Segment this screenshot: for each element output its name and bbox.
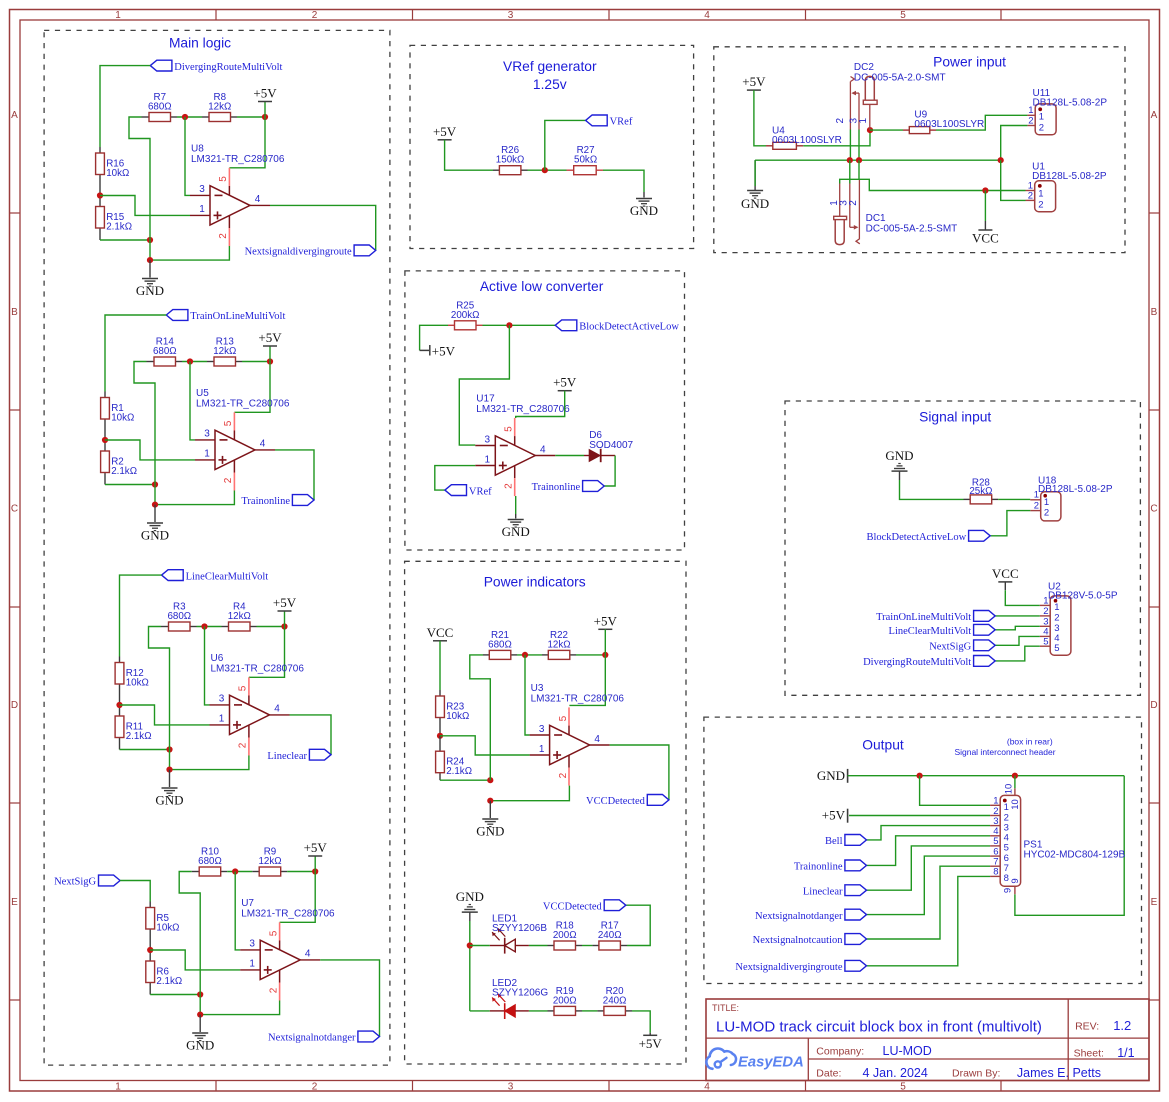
svg-text:1: 1: [485, 454, 491, 465]
wire pin 1 to VRef flag: [435, 466, 476, 491]
wire input flag to divider: [105, 315, 166, 392]
wire R_bot bottom to ground rail: [150, 994, 200, 996]
svg-text:240Ω: 240Ω: [598, 930, 622, 941]
wire node down to pin 3: [459, 325, 509, 445]
svg-text:GND: GND: [136, 283, 164, 298]
node R25 output: [506, 322, 512, 328]
U7 pin 2 (V-): [268, 970, 279, 1001]
U17 pin 2 (V-): [504, 466, 515, 497]
op-amp U17 LM321-TR_C280706: [476, 394, 570, 476]
svg-text:4: 4: [305, 949, 311, 960]
svg-text:GND: GND: [630, 203, 658, 218]
node ground rail left: [166, 746, 172, 752]
svg-text:James E. Petts: James E. Petts: [1017, 1066, 1101, 1080]
svg-text:Output: Output: [862, 738, 904, 753]
svg-text:Nextsignaldivergingroute: Nextsignaldivergingroute: [245, 247, 352, 258]
wire between feedback resistors: [197, 626, 222, 628]
U8 pin 3 (inverting): [190, 184, 210, 195]
svg-text:10kΩ: 10kΩ: [446, 711, 469, 722]
svg-text:0603L100SLYR: 0603L100SLYR: [772, 135, 842, 146]
resistor R9: [252, 847, 287, 877]
svg-text:12kΩ: 12kΩ: [258, 856, 281, 867]
LED LED2 SZYY1206G: [490, 978, 549, 1019]
svg-text:4: 4: [260, 439, 266, 450]
svg-text:LM321-TR_C280706: LM321-TR_C280706: [241, 909, 335, 920]
svg-text:680Ω: 680Ω: [148, 102, 172, 113]
node divider junction: [97, 192, 103, 198]
wire pin 5 to +5V node: [280, 872, 316, 923]
wire BlockDetectActiveLow to U18 pin2: [990, 511, 1030, 536]
resistor R4: [222, 602, 257, 632]
wire +5V to pin 5: [516, 391, 565, 418]
wire U9 to U11 pin1: [936, 115, 1027, 130]
wire feedback loop: [129, 117, 150, 260]
resistor R21: [483, 630, 517, 660]
svg-text:5: 5: [223, 420, 234, 426]
svg-text:A: A: [1151, 110, 1158, 121]
node gnd bus DC1 pin2: [856, 157, 862, 163]
svg-text:DB128V-5.0-5P: DB128V-5.0-5P: [1048, 590, 1118, 601]
U3 pin 4 (output): [590, 734, 610, 745]
U6 pin 3 (inverting): [210, 694, 230, 705]
svg-text:Sheet:: Sheet:: [1074, 1048, 1104, 1060]
svg-text:VCCDetected: VCCDetected: [586, 796, 646, 807]
net flag VRef (U17 input): [445, 485, 492, 498]
svg-text:DC1: DC1: [866, 213, 886, 224]
wire ground to LED rail: [469, 912, 471, 921]
svg-text:Date:: Date:: [816, 1068, 841, 1080]
op-amp U6 LM321-TR_C280706: [211, 653, 305, 735]
svg-text:10kΩ: 10kΩ: [126, 678, 149, 689]
node +5V rail: [281, 623, 287, 629]
resistor R7: [142, 92, 178, 122]
U17 pin 4 (output): [535, 444, 555, 455]
wire to LED2: [470, 1010, 490, 1012]
wire between R21 R22: [517, 654, 542, 656]
resistor R2: [101, 440, 137, 485]
svg-text:EasyEDA: EasyEDA: [738, 1055, 804, 1071]
svg-text:4: 4: [540, 444, 546, 455]
U8 pin 2 (V-): [218, 215, 229, 246]
connector U2 DB128V-5.0-5P: [1040, 581, 1118, 655]
wire output to flag: [320, 960, 379, 1037]
svg-text:DB128L-5.08-2P: DB128L-5.08-2P: [1032, 171, 1107, 182]
wire DC1 pin2 to gnd bus: [858, 160, 860, 179]
svg-text:5: 5: [1043, 637, 1048, 648]
node ground rail left: [147, 237, 153, 243]
wire mid node to pin 3: [205, 627, 210, 705]
net flag NextSigG (input): [929, 640, 995, 653]
svg-text:2: 2: [312, 1082, 318, 1093]
U5 pin 4 (output): [255, 439, 275, 450]
svg-text:VCC: VCC: [427, 625, 454, 640]
svg-text:+5V: +5V: [433, 124, 457, 139]
svg-text:9: 9: [1010, 878, 1021, 883]
section box Active low converter: [405, 271, 685, 550]
svg-text:200kΩ: 200kΩ: [451, 310, 480, 321]
wire U1 pin2 to gnd bus: [1001, 160, 1026, 200]
svg-text:2: 2: [558, 772, 569, 778]
U7 pin 4 (output): [300, 949, 320, 960]
node +5V rail: [267, 358, 273, 364]
svg-text:3: 3: [508, 10, 514, 21]
svg-text:DivergingRouteMultiVolt: DivergingRouteMultiVolt: [863, 657, 971, 668]
svg-text:+5V: +5V: [258, 330, 282, 345]
node ground rail: [152, 502, 158, 508]
svg-text:680Ω: 680Ω: [167, 611, 191, 622]
wire pin 5 to +5V node: [229, 117, 265, 168]
wire DC1 pin3 to gnd bus: [849, 160, 851, 183]
svg-text:5: 5: [268, 930, 279, 936]
svg-text:GND: GND: [741, 196, 769, 211]
svg-text:5: 5: [558, 715, 569, 721]
wire R_bot bottom to ground rail: [105, 484, 155, 486]
wire output to VCCDetected flag: [610, 745, 669, 800]
frame column labels bottom: [115, 1082, 906, 1093]
wire U11 pin2 to gnd bus: [1001, 126, 1028, 161]
svg-text:VCC: VCC: [992, 566, 1019, 581]
svg-text:D: D: [1150, 700, 1157, 711]
svg-text:GND: GND: [502, 524, 530, 539]
wire ground stem (U17): [515, 514, 517, 519]
svg-text:1/1: 1/1: [1117, 1046, 1134, 1060]
svg-text:5: 5: [1054, 643, 1059, 654]
svg-text:2: 2: [1028, 191, 1033, 202]
wire feedback loop (U3): [470, 655, 491, 780]
power VCC (signal input): [992, 566, 1019, 582]
wire R17 to VCCDetected flag: [626, 905, 650, 945]
title block texts: [712, 1003, 1135, 1080]
svg-text:B: B: [11, 307, 18, 318]
svg-text:3: 3: [199, 184, 205, 195]
svg-text:REV:: REV:: [1075, 1021, 1099, 1033]
svg-text:LU-MOD track circuit block box: LU-MOD track circuit block box in front …: [716, 1019, 1042, 1036]
svg-text:50kΩ: 50kΩ: [574, 155, 597, 166]
node ground rail: [147, 257, 153, 263]
svg-text:+5V: +5V: [639, 1036, 663, 1051]
svg-text:10: 10: [1010, 799, 1021, 810]
wire R20 to +5V: [632, 1011, 650, 1033]
wire Bell to PS1: [867, 826, 991, 840]
wire R_up to +5V node: [237, 116, 265, 118]
svg-text:U3: U3: [531, 683, 544, 694]
wire R25 to BlockDetectActiveLow flag: [483, 324, 556, 326]
wire pin 5 to +5V node: [249, 627, 285, 678]
wire NextSigG to U2 pin4: [995, 636, 1040, 645]
svg-text:Signal input: Signal input: [919, 410, 991, 425]
svg-text:LM321-TR_C280706: LM321-TR_C280706: [191, 154, 285, 165]
power flag GND (output): [817, 768, 848, 783]
svg-text:E: E: [1151, 897, 1158, 908]
diode D6 SOD4007: [584, 430, 634, 462]
svg-text:HYC02-MDC804-129B: HYC02-MDC804-129B: [1024, 850, 1126, 861]
net flag DivergingRouteMultiVolt: [150, 60, 282, 73]
svg-text:+5V: +5V: [432, 343, 456, 358]
svg-text:DB128L-5.08-2P: DB128L-5.08-2P: [1033, 98, 1108, 109]
resistor R3: [161, 602, 197, 632]
wire VCC stem: [984, 191, 986, 222]
wire +5V drop (U3): [604, 629, 606, 655]
svg-text:NextSigG: NextSigG: [929, 642, 971, 653]
EasyEDA logo: [706, 1049, 803, 1071]
ground: [502, 520, 530, 540]
svg-text:1: 1: [199, 204, 205, 215]
svg-text:3: 3: [204, 429, 210, 440]
wire +5V drop: [284, 611, 286, 627]
wire pin 2 to ground rail: [170, 756, 249, 770]
svg-text:680Ω: 680Ω: [488, 639, 512, 650]
power +5V (VRef section): [433, 124, 457, 140]
svg-text:TITLE:: TITLE:: [712, 1003, 739, 1013]
ferrite bead U4 0603L100SLYR: [766, 126, 842, 150]
svg-text:240Ω: 240Ω: [603, 995, 627, 1006]
svg-text:3: 3: [508, 1082, 514, 1093]
wire pin 2 to ground rail: [155, 491, 234, 505]
svg-text:GND: GND: [476, 824, 504, 839]
svg-text:U5: U5: [196, 388, 209, 399]
resistor R16: [96, 147, 130, 196]
svg-text:SZYY1206B: SZYY1206B: [492, 923, 547, 934]
U6 pin 2 (V-): [238, 725, 249, 756]
wire DivergingRouteMultiVolt to U2 pin5: [995, 646, 1040, 661]
svg-text:2: 2: [1034, 501, 1039, 512]
ground: [186, 1033, 214, 1053]
op-amp U5 LM321-TR_C280706: [196, 388, 290, 470]
power +5V: [258, 330, 282, 346]
power +5V: [273, 595, 297, 611]
resistor R19: [548, 986, 583, 1016]
svg-text:+5V: +5V: [822, 808, 846, 823]
net flag BlockDetectActiveLow (input): [866, 530, 990, 543]
resistor R27: [567, 145, 604, 175]
svg-text:VCC: VCC: [972, 231, 999, 246]
svg-text:10kΩ: 10kΩ: [111, 413, 134, 424]
wire divider to pin 1 (U3): [440, 736, 530, 755]
power +5V: [253, 86, 277, 102]
ground: [630, 199, 658, 219]
node output bus pin1 tap: [917, 773, 923, 779]
svg-text:Lineclear: Lineclear: [267, 751, 307, 762]
resistor R5: [146, 902, 180, 951]
svg-text:12kΩ: 12kΩ: [228, 611, 251, 622]
svg-text:1: 1: [219, 714, 225, 725]
svg-text:U6: U6: [211, 653, 224, 664]
wire D6 to Trainonline flag: [604, 456, 615, 487]
section box Power indicators: [405, 561, 686, 1064]
resistor R13: [207, 337, 242, 367]
wire Nextsignalnotcaution to PS1: [867, 866, 991, 939]
svg-text:0603L100SLYR: 0603L100SLYR: [914, 119, 984, 130]
svg-text:4: 4: [704, 10, 710, 21]
U7 pin 1 (non-inverting): [240, 959, 260, 970]
wire divider to pin 1: [120, 705, 210, 725]
U6 pin 5 (V+): [238, 677, 249, 705]
wire +5V drop: [264, 102, 266, 118]
wire pin 2 to ground rail: [150, 246, 229, 260]
node LED1 tap: [467, 942, 473, 948]
wire input flag to divider: [100, 66, 150, 147]
wire between feedback resistors: [177, 116, 202, 118]
wire divider to pin 1: [150, 950, 240, 970]
wire ground to R28: [899, 471, 901, 480]
resistor R1: [101, 392, 135, 441]
wire output to flag: [275, 450, 314, 500]
svg-text:SOD4007: SOD4007: [589, 440, 633, 451]
svg-text:12kΩ: 12kΩ: [547, 639, 570, 650]
power +5V (power input): [742, 74, 766, 90]
U3 pin 2 (V-): [558, 755, 569, 786]
wire VCC to R23: [439, 641, 441, 690]
title block: [706, 999, 1149, 1081]
wire DC2 pin3 to gnd bus: [858, 130, 860, 161]
U7 pin 3 (inverting): [240, 939, 260, 950]
svg-text:LU-MOD: LU-MOD: [883, 1044, 932, 1058]
wire R_up to +5V node: [287, 871, 315, 873]
wire to LED1: [470, 945, 490, 947]
svg-text:2.1kΩ: 2.1kΩ: [126, 731, 152, 742]
node ground rail: [166, 767, 172, 773]
node ground rail left (U3): [487, 777, 493, 783]
node feedback mid: [182, 114, 188, 120]
wire R_up to +5V node: [257, 626, 285, 628]
svg-text:+5V: +5V: [742, 74, 766, 89]
resistor R6: [146, 950, 182, 995]
svg-text:1: 1: [115, 1082, 121, 1093]
wire LED1 to R18: [529, 945, 548, 947]
net flag Trainonline (output): [794, 860, 867, 873]
wire Nextsignalnotdanger to PS1: [867, 856, 991, 915]
svg-text:25kΩ: 25kΩ: [969, 486, 992, 497]
wire mid node to pin 3: [185, 117, 190, 195]
svg-text:DC-005-5A-2.5-SMT: DC-005-5A-2.5-SMT: [866, 224, 958, 235]
svg-text:4: 4: [274, 704, 280, 715]
svg-text:1: 1: [1054, 602, 1059, 613]
svg-text:1: 1: [1044, 497, 1049, 508]
wire R19 to R20: [582, 1010, 597, 1012]
net flag TrainOnLineMultiVolt: [166, 310, 285, 323]
net flag Trainonline (output): [532, 481, 605, 494]
frame row labels right: [1150, 110, 1157, 908]
svg-text:1: 1: [1039, 112, 1044, 123]
svg-text:200Ω: 200Ω: [553, 995, 577, 1006]
wire feedback loop: [134, 362, 155, 505]
wire feedback loop: [149, 627, 170, 770]
svg-text:NextSigG: NextSigG: [54, 877, 96, 888]
svg-text:2: 2: [848, 200, 859, 206]
svg-text:(box in rear): (box in rear): [1007, 737, 1053, 747]
svg-text:VCCDetected: VCCDetected: [543, 901, 603, 912]
section box Output: [704, 717, 1142, 983]
wire output to flag: [290, 715, 332, 755]
svg-text:DC-005-5A-2.0-SMT: DC-005-5A-2.0-SMT: [854, 73, 946, 84]
wire VCC to U2 pin1: [1004, 582, 1006, 590]
wire between feedback resistors: [227, 871, 252, 873]
U6 pin 4 (output): [270, 704, 290, 715]
connector U11 DB128L-5.08-2P: [1027, 88, 1107, 135]
svg-text:1: 1: [204, 449, 210, 460]
svg-text:4: 4: [255, 194, 261, 205]
svg-text:2.1kΩ: 2.1kΩ: [156, 976, 182, 987]
resistor R12: [115, 657, 149, 706]
net flag Lineclear (output): [803, 885, 867, 898]
section box Power input: [714, 47, 1125, 253]
svg-text:8: 8: [993, 867, 998, 878]
svg-text:+5V: +5V: [273, 595, 297, 610]
svg-text:+5V: +5V: [253, 86, 277, 101]
net flag VCCDetected: [586, 795, 669, 808]
svg-text:Active low converter: Active low converter: [480, 279, 604, 294]
op-amp U3 LM321-TR_C280706: [531, 683, 625, 765]
svg-text:Lineclear: Lineclear: [803, 886, 843, 897]
svg-text:DivergingRouteMultiVolt: DivergingRouteMultiVolt: [174, 62, 282, 73]
U5 pin 5 (V+): [223, 412, 234, 440]
net flag VCCDetected (LED1): [543, 900, 626, 913]
svg-text:Nextsignalnotdanger: Nextsignalnotdanger: [755, 911, 843, 922]
node R21 R22 junction: [522, 652, 528, 658]
node ground rail left: [197, 991, 203, 997]
wire gnd bus to ground: [754, 160, 756, 190]
svg-text:5: 5: [238, 685, 249, 691]
ground (power input): [741, 191, 769, 212]
wire mid node to pin 3: [190, 362, 195, 440]
resistor R26: [493, 145, 528, 175]
wire Nextsignaldivergingroute to PS1: [867, 876, 991, 965]
resistor R11: [115, 705, 151, 750]
svg-text:2: 2: [238, 742, 249, 748]
svg-text:+5V: +5V: [304, 840, 328, 855]
svg-text:+5V: +5V: [553, 375, 577, 390]
wire R_up to +5V node: [242, 361, 270, 363]
node feedback mid: [187, 358, 193, 364]
svg-text:2.1kΩ: 2.1kΩ: [446, 766, 472, 777]
ferrite bead U9 0603L100SLYR: [903, 110, 984, 134]
resistor R28: [964, 478, 999, 504]
wire pin 5 to +5V node: [234, 362, 270, 413]
node VCC divider junction: [437, 733, 443, 739]
resistor R18: [548, 920, 583, 950]
svg-text:1: 1: [539, 744, 545, 755]
connector U18 DB128L-5.08-2P: [1030, 475, 1113, 521]
svg-text:GND: GND: [155, 793, 183, 808]
node DC2 pin1: [867, 127, 873, 133]
svg-text:B: B: [1151, 307, 1158, 318]
section box Signal input: [785, 401, 1140, 695]
U5 pin 3 (inverting): [195, 429, 215, 440]
node VCC tap: [982, 187, 988, 193]
svg-text:2: 2: [1054, 613, 1059, 624]
svg-text:DB128L-5.08-2P: DB128L-5.08-2P: [1038, 484, 1113, 495]
svg-text:5: 5: [218, 176, 229, 182]
node output bus pin10 tap: [1012, 773, 1018, 779]
wire R28 to U18 pin1: [998, 498, 1030, 500]
power flag +5V (output): [822, 808, 848, 823]
net flag LineClearMultiVolt: [162, 570, 269, 583]
net flag NextSigG: [54, 875, 120, 888]
power +5V (U17): [553, 375, 577, 391]
power +5V (sideways flag): [420, 343, 456, 358]
wire Lineclear to PS1: [867, 846, 991, 890]
wire junction to VRef flag: [545, 120, 586, 170]
net flag VRef: [586, 115, 633, 128]
ground (LED rail): [456, 889, 484, 912]
ground: [476, 819, 504, 839]
node ground rail: [197, 1012, 203, 1018]
svg-text:Bell: Bell: [825, 836, 843, 847]
svg-text:2: 2: [268, 987, 279, 993]
wire bus to PS1 pin1: [920, 776, 991, 806]
wire DC2 pin2 to gnd bus: [849, 130, 851, 161]
net flag DivergingRouteMultiVolt (input): [863, 656, 995, 669]
